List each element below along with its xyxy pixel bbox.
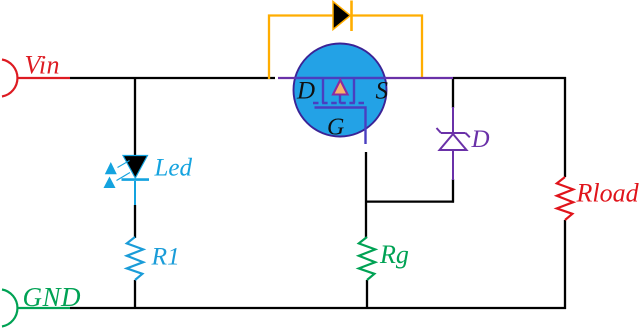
svg-text:Rload: Rload <box>576 179 640 208</box>
svg-text:D: D <box>296 78 315 105</box>
svg-text:Rg: Rg <box>379 240 409 269</box>
svg-text:G: G <box>327 115 344 141</box>
svg-text:R1: R1 <box>151 242 180 271</box>
svg-text:S: S <box>376 78 389 105</box>
svg-text:Vin: Vin <box>25 51 60 80</box>
svg-text:D: D <box>471 126 490 153</box>
svg-text:Led: Led <box>154 155 193 182</box>
svg-text:GND: GND <box>23 282 82 312</box>
